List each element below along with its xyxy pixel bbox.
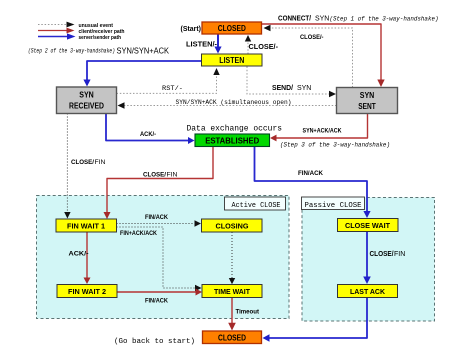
legend client/receiver path arrow	[38, 28, 125, 35]
svg-text:FIN/ACK: FIN/ACK	[145, 298, 168, 305]
wire LISTEN to SYN SENT (dotted, SEND/SYN)	[247, 67, 336, 98]
state FIN WAIT 2	[57, 285, 117, 298]
svg-text:CLOSED: CLOSED	[218, 334, 246, 343]
svg-text:ACK/-: ACK/-	[140, 131, 156, 138]
svg-text:SEND/ SYN: SEND/ SYN	[272, 85, 311, 92]
wire FIN WAIT 1 to FIN WAIT 2 (red, ACK/-)	[69, 232, 91, 284]
node (Go back to start) label	[114, 338, 195, 346]
svg-text:FIN WAIT 2: FIN WAIT 2	[68, 287, 106, 296]
label box Passive CLOSE	[302, 197, 365, 210]
wire SYN SENT to SYN RECEIVED (dotted, simultaneous open)	[118, 99, 337, 109]
svg-text:Passive CLOSE: Passive CLOSE	[305, 202, 362, 210]
node Data exchange occurs label	[187, 124, 283, 133]
wire CLOSING to TIME WAIT (dotted)	[229, 232, 235, 284]
svg-text:TIME WAIT: TIME WAIT	[214, 287, 250, 296]
state FIN WAIT 1	[56, 219, 117, 232]
wire SYN RECEIVED to FIN WAIT 1 (dotted, CLOSE/FIN)	[64, 114, 105, 219]
wire SYN SENT to CLOSED (dotted, CLOSE/-)	[264, 25, 353, 88]
state SYN RECEIVED	[57, 87, 117, 114]
wire FIN WAIT 2 to TIME WAIT (red, FIN/ACK)	[117, 289, 202, 305]
svg-text:CLOSE/-: CLOSE/-	[249, 44, 279, 51]
svg-text:Active CLOSE: Active CLOSE	[232, 202, 281, 210]
svg-text:SYN: SYN	[360, 91, 375, 100]
region Passive CLOSE background	[302, 198, 435, 322]
svg-text:Timeout: Timeout	[236, 309, 260, 316]
svg-text:CONNECT/ SYN: CONNECT/ SYN	[278, 15, 329, 22]
svg-text:CLOSE/FIN: CLOSE/FIN	[370, 251, 406, 258]
svg-text:(Step 3 of the 3-way-handshake: (Step 3 of the 3-way-handshake)	[280, 141, 390, 148]
wire LISTEN to CLOSED (dotted, CLOSE/-)	[245, 35, 279, 54]
svg-text:Data exchange occurs: Data exchange occurs	[187, 124, 283, 133]
svg-text:(Step 2 of the 3-way-handshake: (Step 2 of the 3-way-handshake)	[28, 48, 115, 55]
state CLOSED (start)	[202, 22, 262, 34]
state CLOSE WAIT	[338, 219, 399, 232]
state CLOSING	[202, 219, 263, 232]
svg-text:(Start): (Start)	[181, 24, 202, 33]
svg-text:SYN+ACK/ACK: SYN+ACK/ACK	[303, 127, 342, 134]
svg-text:RST/-: RST/-	[162, 85, 183, 92]
wire SYN SENT to ESTABLISHED (red, SYN+ACK/ACK step 3)	[270, 114, 390, 149]
svg-text:FIN+ACK/ACK: FIN+ACK/ACK	[120, 230, 157, 237]
svg-text:ESTABLISHED: ESTABLISHED	[205, 137, 259, 146]
svg-text:RECEIVED: RECEIVED	[69, 102, 104, 111]
label box Active CLOSE	[225, 197, 286, 210]
svg-text:(Go back to start): (Go back to start)	[114, 338, 195, 346]
state LAST ACK	[338, 285, 398, 298]
svg-text:LISTEN/-: LISTEN/-	[186, 42, 218, 49]
state LISTEN	[202, 54, 263, 66]
svg-text:FIN/ACK: FIN/ACK	[145, 214, 168, 221]
wire LAST ACK to CLOSED (blue)	[263, 298, 368, 342]
wire SYN RECEIVED to ESTABLISHED (blue, ACK/-)	[106, 114, 195, 145]
wire SYN RECEIVED to LISTEN (dotted, RST/-)	[117, 68, 220, 93]
svg-text:CLOSE WAIT: CLOSE WAIT	[345, 221, 390, 230]
svg-text:SYN: SYN	[79, 91, 94, 100]
wire ESTABLISHED to CLOSE WAIT (blue, FIN/ACK)	[255, 147, 371, 219]
wire LISTEN to SYN RECEIVED (blue, SYN/SYN+ACK step 2)	[28, 47, 202, 87]
svg-text:LISTEN: LISTEN	[219, 56, 244, 65]
wire FIN WAIT 1 to CLOSING (dotted, FIN/ACK)	[117, 214, 202, 227]
svg-text:SENT: SENT	[358, 102, 376, 111]
node (Start) label	[181, 24, 202, 33]
svg-text:server/sender path: server/sender path	[79, 35, 122, 41]
wire CLOSED to LISTEN (blue, LISTEN/-)	[186, 34, 222, 54]
svg-text:FIN/ACK: FIN/ACK	[298, 170, 323, 177]
svg-text:CLOSE/FIN: CLOSE/FIN	[143, 172, 178, 179]
svg-text:CLOSE/-: CLOSE/-	[300, 34, 324, 41]
state SYN SENT	[337, 88, 398, 114]
state CLOSED (end)	[203, 331, 262, 344]
svg-text:FIN WAIT 1: FIN WAIT 1	[67, 222, 105, 231]
wire FIN WAIT 1 to TIME WAIT (dotted, FIN+ACK/ACK)	[117, 227, 202, 291]
state TIME WAIT	[202, 285, 262, 298]
svg-text:LAST ACK: LAST ACK	[350, 287, 386, 296]
wire ESTABLISHED to FIN WAIT 1 (red, CLOSE/FIN)	[104, 147, 214, 220]
svg-text:CLOSING: CLOSING	[216, 222, 249, 231]
region Active CLOSE background	[37, 196, 290, 319]
svg-text:CLOSE/FIN: CLOSE/FIN	[71, 159, 106, 166]
state ESTABLISHED	[195, 134, 270, 147]
wire CLOSED to SYN SENT (red, CONNECT/SYN)	[262, 15, 439, 87]
svg-text:ACK/-: ACK/-	[69, 251, 89, 258]
wire TIME WAIT to CLOSED (red, Timeout)	[228, 298, 259, 331]
wire CLOSE WAIT to LAST ACK (blue, CLOSE/FIN)	[363, 232, 405, 285]
legend server/sender path arrow	[38, 33, 121, 40]
svg-text:SYN/SYN+ACK: SYN/SYN+ACK	[117, 47, 170, 56]
legend unusual event arrow	[38, 22, 113, 29]
svg-text:(Step 1 of the 3-way-handshake: (Step 1 of the 3-way-handshake)	[330, 15, 439, 22]
svg-text:CLOSED: CLOSED	[218, 24, 246, 33]
svg-text:SYN/SYN+ACK (simultaneous open: SYN/SYN+ACK (simultaneous open)	[176, 99, 292, 106]
